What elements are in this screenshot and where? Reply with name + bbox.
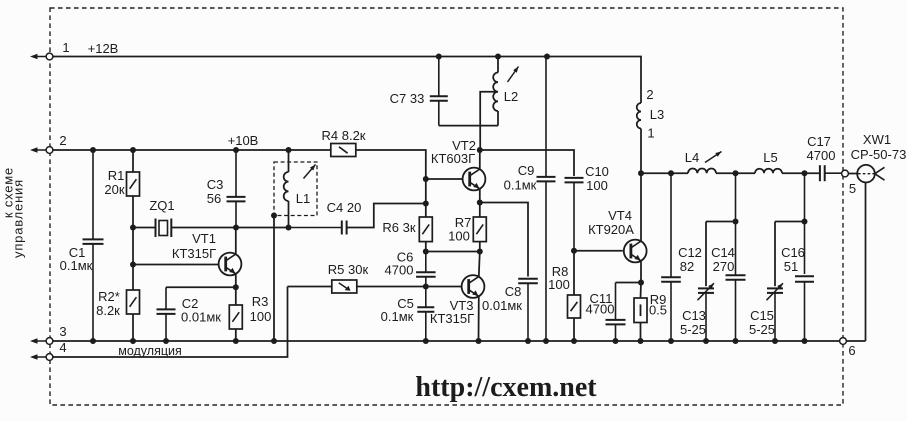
label VT2 [431, 138, 476, 166]
label L4 [685, 150, 699, 165]
node C16 bottom [802, 338, 808, 344]
svg-text:C4 20: C4 20 [327, 200, 362, 215]
svg-text:C9: C9 [518, 163, 535, 178]
label C16 [781, 245, 805, 274]
capacitor C6 [416, 252, 436, 287]
label C8 [482, 284, 522, 313]
wire to R6 [425, 204, 427, 218]
node ZQ1 tap [130, 225, 136, 231]
wire shield to ground [273, 216, 275, 342]
label L2 [504, 89, 518, 104]
wire XW1 to ground rail [865, 183, 867, 342]
inductor L5 [755, 169, 782, 174]
svg-text:0.01мк: 0.01мк [482, 298, 522, 313]
svg-text:C12: C12 [678, 245, 702, 260]
transistor VT2 [463, 168, 486, 191]
svg-text:XW1: XW1 [863, 132, 891, 147]
trimmer C15 [767, 222, 784, 342]
node R2 bottom [130, 338, 136, 344]
label C12 [678, 245, 702, 274]
node C5-C6-R5 junction [423, 284, 429, 290]
wire VT1 emitter [235, 274, 237, 288]
wire VT2 collector to C10 [480, 150, 574, 176]
node C13-C14 junction [733, 219, 739, 225]
svg-text:270: 270 [713, 259, 735, 274]
wire ground rail (pin3 to XW1 drop) [52, 340, 866, 342]
label C2 [181, 296, 221, 325]
wire R3 top lead [235, 287, 237, 305]
wire modulation rail (pin4 to riser) [52, 287, 288, 358]
svg-text:0.5: 0.5 [649, 303, 667, 318]
node C14 bottom [733, 338, 739, 344]
label pin 4 [59, 340, 66, 355]
node C5 bottom [423, 338, 429, 344]
svg-text:R5 30к: R5 30к [328, 262, 369, 277]
node VT2 base tap [423, 176, 429, 182]
L1 shield box [274, 162, 317, 216]
label VT1 [172, 231, 216, 261]
wire L2 top lead [497, 57, 499, 73]
svg-text:82: 82 [680, 259, 694, 274]
wire base column to C4 node [425, 179, 427, 204]
wire ZQ1 left lead [133, 227, 156, 229]
label pin 1 [62, 40, 69, 55]
wire R4 to VT2 base column [356, 150, 426, 179]
node R3 bottom [233, 338, 239, 344]
label C15 [749, 308, 775, 337]
capacitor C17 [820, 165, 842, 181]
svg-text:КТ920А: КТ920А [588, 222, 634, 237]
wire emitter to C2 [166, 286, 236, 288]
svg-text:R3: R3 [252, 294, 269, 309]
svg-text:C3: C3 [207, 177, 224, 192]
node C2 bottom [163, 338, 169, 344]
node shield ground tap [271, 213, 277, 219]
label C1 [60, 245, 93, 273]
node L2 top [495, 54, 501, 60]
label pin 2 [59, 133, 66, 148]
wire C15 top link [775, 221, 805, 223]
capacitor C3 [227, 150, 246, 228]
wire node to L1 bottom [236, 227, 289, 229]
node C4 junction [423, 201, 429, 207]
label R4 8.2к [322, 128, 366, 143]
wire +12V rail (pin1 to L3 corner) [52, 57, 641, 104]
wire R8 link [573, 251, 575, 295]
pin 2 [30, 147, 53, 154]
svg-text:C13: C13 [682, 308, 706, 323]
wire pin5 to XW1 [848, 173, 857, 175]
node C13 bottom [703, 338, 709, 344]
capacitor C9 [537, 57, 556, 342]
svg-text:0.01мк: 0.01мк [181, 310, 221, 325]
node C15-C16 junction [802, 219, 808, 225]
svg-text:4700: 4700 [586, 302, 615, 317]
svg-text:R6 3к: R6 3к [382, 220, 415, 235]
wire L1 top lead [288, 150, 290, 172]
wire L1 bottom lead [288, 201, 290, 228]
resistor R7 [473, 217, 486, 242]
label ZQ1 [149, 198, 174, 213]
wire R3 bottom lead [235, 329, 237, 341]
inductor L2 [493, 73, 498, 111]
label R5 30к [328, 262, 369, 277]
node C11 bottom [613, 338, 619, 344]
node C1 top [90, 147, 96, 153]
node VT2 collector [477, 147, 483, 153]
node R8 bottom [571, 338, 577, 344]
node VT1 collector junction [233, 225, 239, 231]
node VT4 base tap [571, 248, 577, 254]
capacitor C12 [661, 173, 681, 341]
svg-text:56: 56 [207, 191, 221, 206]
wire VT2 emitter [479, 189, 481, 203]
node C7 top [436, 54, 442, 60]
node C14 top [733, 170, 739, 176]
wire L2 tap to VT2 collector [480, 92, 498, 150]
L2 adjust arrow [508, 67, 519, 83]
svg-text:5: 5 [849, 181, 856, 196]
resistor R8 [568, 295, 581, 318]
resistor R5 [332, 280, 357, 293]
wire R6 bottom [425, 242, 427, 252]
svg-text:1: 1 [62, 40, 69, 55]
svg-text:КТ315Г: КТ315Г [430, 311, 474, 326]
capacitor C4 [289, 204, 426, 235]
wire to VT4 collector [640, 173, 642, 241]
wire C13 top link [706, 221, 736, 223]
wire VT4 emitter lead [640, 261, 642, 283]
svg-text:C15: C15 [750, 308, 774, 323]
resistor R4 [331, 144, 356, 157]
svg-text:КТ315Г: КТ315Г [172, 246, 216, 261]
node output junction [638, 170, 644, 176]
label VT3 [430, 298, 474, 326]
wire VT3 emitter [478, 296, 480, 341]
node C9 bottom [543, 338, 549, 344]
svg-text:VT4: VT4 [608, 208, 632, 223]
crystal ZQ1 [156, 219, 172, 238]
label C17 [807, 134, 836, 163]
wire VT1 collector [235, 228, 237, 255]
L4 adjust arrow [705, 152, 722, 163]
transistor VT1 [219, 253, 242, 276]
svg-text:6: 6 [848, 343, 855, 358]
wire emitter to C8 [480, 203, 528, 277]
svg-text:100: 100 [448, 229, 470, 244]
svg-text:СР-50-73: СР-50-73 [851, 147, 907, 162]
svg-text:0.1мк: 0.1мк [381, 309, 414, 324]
node C12 bottom [668, 338, 674, 344]
svg-text:C7 33: C7 33 [390, 91, 425, 106]
node L1 top [286, 147, 292, 153]
label R6 3к [382, 220, 415, 235]
node R6 bottom [423, 249, 429, 255]
label R7 [448, 215, 471, 244]
svg-text:R4 8.2к: R4 8.2к [322, 128, 366, 143]
capacitor C1 [83, 150, 104, 341]
node C1 bottom [90, 338, 96, 344]
label R9 [649, 292, 667, 318]
svg-text:2: 2 [646, 87, 653, 102]
wire R5 left lead [288, 286, 332, 288]
transistor VT4 [624, 240, 647, 263]
label: к схеме управления [1, 167, 26, 258]
wire R6-R7 bottom link [426, 251, 480, 253]
wire VT2 base [426, 178, 463, 180]
wire R1 top lead [132, 150, 134, 172]
trimmer C13 [698, 222, 715, 342]
label R1 [104, 168, 124, 197]
svg-text:VT1: VT1 [192, 231, 216, 246]
svg-text:+10В: +10В [228, 133, 259, 148]
node L1 bottom [286, 225, 292, 231]
svg-text:C16: C16 [781, 245, 805, 260]
svg-text:ZQ1: ZQ1 [149, 198, 174, 213]
svg-text:R1: R1 [108, 168, 125, 183]
node VT4 emitter [638, 280, 644, 286]
wire L3 bottom to output node [640, 129, 642, 174]
resistor R6 [419, 217, 432, 242]
inductor L1 [284, 172, 289, 201]
wire VT2 collector [479, 150, 481, 169]
resistor R9 [634, 298, 647, 323]
net +10В label [228, 133, 259, 148]
wire R9 bottom lead [640, 323, 642, 342]
pin 3 [30, 338, 53, 345]
svg-text:C14: C14 [711, 245, 735, 260]
label L3 pin 1 [647, 126, 654, 141]
inductor L3 [637, 103, 641, 129]
label VT4 [588, 208, 634, 237]
svg-text:модуляция: модуляция [118, 344, 182, 358]
svg-text:C8: C8 [505, 284, 522, 299]
label L1 [296, 191, 310, 206]
label C6 [385, 250, 414, 278]
capacitor C10 [565, 178, 584, 251]
resistor R1 [127, 172, 140, 196]
node VT2 emitter [477, 200, 483, 206]
wire R8 bottom lead [573, 318, 575, 341]
svg-text:C10: C10 [585, 164, 609, 179]
node C16 top [802, 170, 808, 176]
wire VT3 base [426, 286, 462, 288]
svg-text:4700: 4700 [385, 263, 414, 278]
node R9 bottom [638, 338, 644, 344]
resistor R3 [229, 305, 242, 329]
label C5 [381, 296, 414, 324]
wire C7-L2 bottom link [439, 125, 498, 127]
svg-text:100: 100 [586, 178, 608, 193]
svg-text:3: 3 [59, 324, 66, 339]
label C13 [680, 308, 706, 337]
svg-text:http://cxem.net: http://cxem.net [415, 372, 597, 403]
label pin 5 [849, 181, 856, 196]
wire R9 top lead [640, 283, 643, 299]
capacitor C14 [726, 173, 746, 341]
transistor VT3 [462, 275, 485, 298]
node VT1 emitter [233, 284, 239, 290]
capacitor C7 [430, 57, 448, 126]
label C4 20 [327, 200, 362, 215]
node R1 top [130, 147, 136, 153]
capacitor C16 [795, 173, 814, 341]
label C9 [504, 163, 537, 193]
watermark http://cxem.net [415, 372, 597, 403]
label C7 33 [390, 91, 425, 106]
svg-text:управления: управления [11, 179, 26, 258]
svg-text:51: 51 [784, 259, 798, 274]
svg-text:L1: L1 [296, 191, 310, 206]
label R2* [96, 289, 120, 318]
svg-text:4700: 4700 [807, 148, 836, 163]
node C8 bottom [525, 338, 531, 344]
net модуляция label [118, 344, 182, 358]
pin 1 [30, 53, 53, 60]
label L5 [763, 150, 777, 165]
label pin 6 [848, 343, 855, 358]
wire VT3 collector [479, 252, 480, 277]
label C3 [207, 177, 224, 206]
wire VT4 base [574, 250, 623, 252]
L1 adjust arrow [304, 165, 316, 179]
svg-text:L3: L3 [650, 107, 664, 122]
svg-text:L2: L2 [504, 89, 518, 104]
pin 6 [840, 338, 847, 345]
svg-text:0.1мк: 0.1мк [504, 178, 537, 193]
label C14 [711, 245, 735, 274]
wire output line segment 3 [782, 172, 820, 174]
label R8 [548, 264, 570, 292]
capacitor C11 [606, 283, 626, 342]
wire R5 right lead [357, 286, 426, 288]
node C12 top [668, 170, 674, 176]
inductor L4 [688, 169, 716, 174]
svg-text:5-25: 5-25 [749, 322, 775, 337]
svg-text:R2*: R2* [98, 289, 120, 304]
label C11 [586, 291, 615, 317]
node C3 top [233, 147, 239, 153]
wire emitter to C11 [616, 282, 642, 284]
svg-text:L4: L4 [685, 150, 699, 165]
svg-text:100: 100 [250, 309, 272, 324]
wire +10V rail (pin2 to R4) [52, 149, 331, 151]
label pin 3 [59, 324, 66, 339]
wire R1-R2 link [132, 196, 134, 290]
svg-text:+12В: +12В [88, 41, 119, 56]
node C9 top [544, 54, 550, 60]
label XW1 [851, 132, 907, 162]
connector XW1 [857, 165, 884, 183]
capacitor C8 [518, 279, 538, 341]
wire L2 bottom lead [497, 111, 499, 126]
capacitor C5 [417, 287, 434, 342]
svg-text:8.2к: 8.2к [96, 303, 120, 318]
svg-text:2: 2 [59, 133, 66, 148]
resistor R2* [127, 290, 140, 314]
node VT1 base tap [130, 262, 136, 268]
wire R2 bottom lead [132, 314, 134, 341]
wire R7 bottom lead [479, 242, 481, 252]
label R3 [250, 294, 272, 324]
pin 4 [30, 354, 53, 361]
svg-text:20к: 20к [104, 182, 124, 197]
label L3 pin 2 [646, 87, 653, 102]
node VT3 emitter bottom [476, 338, 482, 344]
label C10 [585, 164, 609, 193]
node shield ground bottom [271, 338, 277, 344]
wire ZQ1 right lead [171, 227, 236, 229]
net +12В label [88, 41, 119, 56]
node C15 bottom [772, 338, 778, 344]
label L3 [650, 107, 664, 122]
svg-text:5-25: 5-25 [680, 322, 706, 337]
svg-text:КТ603Г: КТ603Г [431, 151, 475, 166]
wire output line segment 2 [716, 172, 755, 174]
wire R7 top lead [479, 203, 481, 218]
svg-text:0.1мк: 0.1мк [60, 258, 93, 273]
capacitor C2 [157, 287, 176, 341]
wire output line segment 1 [641, 172, 688, 174]
node R7 bottom [477, 249, 483, 255]
svg-text:C17: C17 [807, 134, 831, 149]
svg-text:4: 4 [59, 340, 66, 355]
svg-text:1: 1 [647, 126, 654, 141]
svg-text:100: 100 [548, 277, 570, 292]
svg-text:L5: L5 [763, 150, 777, 165]
pin 5 [842, 170, 849, 177]
wire VT1 base [133, 264, 219, 266]
